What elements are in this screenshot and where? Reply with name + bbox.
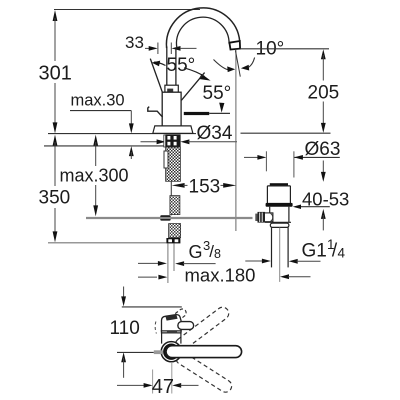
hose lines — [167, 243, 169, 283]
faucet body — [162, 92, 181, 126]
counter bottom line — [44, 145, 164, 147]
lever handle (side view) — [184, 112, 209, 115]
dimension 40-53 — [293, 161, 350, 231]
svg-text:55°: 55° — [167, 55, 196, 76]
mounting ring (plan) — [161, 342, 181, 362]
o-ring — [266, 203, 293, 207]
dashed spout position (steep) — [168, 308, 188, 326]
svg-text:153: 153 — [189, 177, 221, 198]
threaded rod middle — [170, 196, 180, 215]
dimension 33 — [125, 33, 197, 54]
svg-text:47: 47 — [152, 376, 174, 398]
hose nut — [166, 238, 180, 243]
upper body — [266, 186, 268, 203]
spout arc inner — [177, 17, 230, 48]
svg-text:Ø34: Ø34 — [197, 123, 233, 144]
svg-text:55°: 55° — [203, 83, 232, 104]
svg-text:33: 33 — [125, 33, 144, 52]
base flange — [153, 126, 193, 133]
svg-text:max.30: max.30 — [71, 92, 125, 110]
dimension max.30 — [70, 92, 134, 160]
top reference line — [54, 9, 200, 11]
dimension 205 — [308, 49, 340, 133]
drain pop-up waste assembly — [255, 183, 292, 282]
dimension 110 — [110, 287, 182, 378]
label G1 1/4 — [302, 237, 346, 262]
dimension 350 — [39, 135, 167, 243]
dimension 301 — [39, 10, 72, 133]
dimension G 3/8 — [138, 261, 216, 266]
svg-text:max.180: max.180 — [185, 265, 256, 286]
svg-text:205: 205 — [308, 83, 340, 104]
lever raised-right line L2 — [181, 73, 204, 101]
dimension G1 1/4 — [245, 259, 320, 264]
threaded rod lower — [169, 224, 181, 238]
lever left stub — [148, 107, 163, 118]
mounting shank block — [164, 134, 181, 147]
side plate — [164, 151, 168, 168]
plug cap — [270, 183, 288, 186]
aerator — [229, 41, 240, 50]
svg-text:350: 350 — [39, 188, 71, 209]
svg-text:8: 8 — [214, 247, 221, 261]
svg-text:4: 4 — [338, 246, 346, 261]
spout arc outer — [166, 8, 239, 48]
lever raised-left line L1 — [150, 59, 162, 93]
threaded rod upper — [166, 147, 181, 181]
locknut collar — [270, 223, 289, 227]
side port — [263, 213, 273, 222]
spout tube — [166, 47, 168, 86]
water stream vertical line — [235, 50, 237, 231]
svg-text:110: 110 — [110, 318, 140, 339]
dashed lever position lower — [174, 350, 234, 395]
dimension max.300 — [60, 135, 129, 217]
cartridge collar — [165, 85, 178, 92]
10 degree tilted line — [235, 50, 240, 76]
dimension diameter 63 — [244, 139, 340, 178]
svg-text:max.300: max.300 — [60, 166, 129, 186]
svg-text:301: 301 — [39, 63, 72, 85]
pull rod — [170, 181, 172, 215]
counter top line — [48, 133, 196, 135]
label 55 degrees (upper) — [152, 55, 211, 81]
drain axis line — [279, 228, 281, 282]
tailpipe — [271, 227, 273, 267]
horizontal linkage rod — [86, 217, 253, 219]
faucet head (plan view) — [155, 314, 193, 343]
dimension 47 — [117, 362, 199, 398]
knurled knob — [255, 214, 257, 221]
dashed lever position upper — [173, 305, 231, 353]
label G 3/8 — [189, 238, 222, 262]
dimension 153 — [172, 177, 237, 198]
clamp fitting — [160, 215, 170, 220]
label 10 degrees — [214, 39, 330, 73]
lower body — [269, 207, 271, 223]
label 55 degrees (lower) — [203, 83, 232, 113]
dimension max.180 — [138, 265, 311, 286]
lever handle (plan, solid) — [166, 346, 242, 358]
svg-text:G1: G1 — [302, 240, 327, 261]
svg-text:G: G — [189, 242, 203, 262]
dimension Ø34 — [141, 123, 238, 144]
